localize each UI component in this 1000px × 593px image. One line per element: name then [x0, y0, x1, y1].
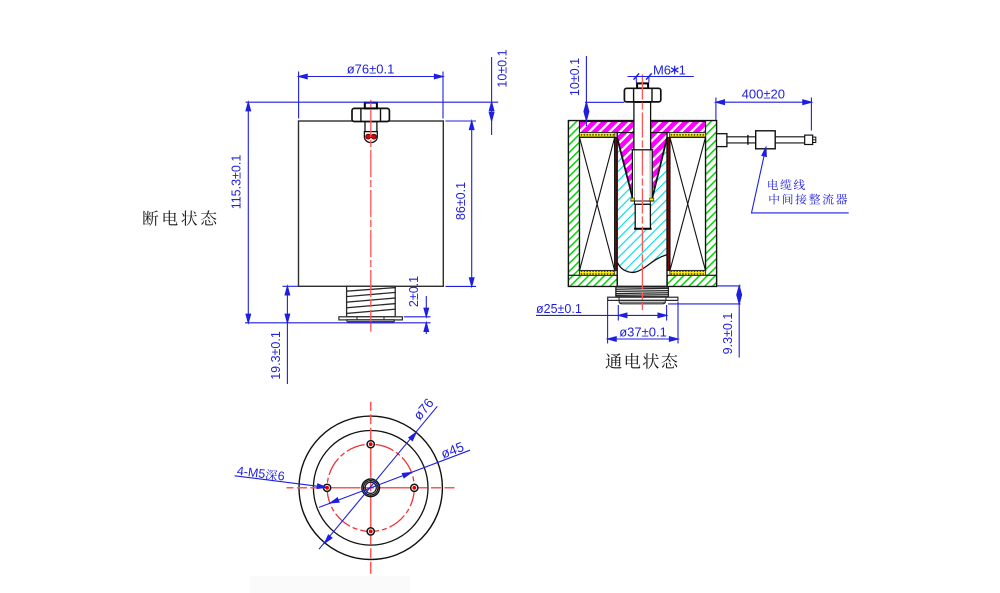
dim ø37±0.1 line [608, 338, 678, 340]
top stud tab [637, 83, 648, 88]
dim ø25±0.1 extensions [617, 305, 619, 321]
rounded bolt tip with red dots [364, 132, 377, 143]
hex nut on top [352, 108, 389, 121]
dim ø76 leader line [319, 406, 437, 549]
cable gland stub [717, 134, 727, 147]
channel wall lines [616, 133, 618, 287]
bobbin wall left (dark red) [615, 137, 617, 270]
dim 400±20 line [716, 101, 812, 103]
bolt end gap [635, 201, 651, 204]
hole E [411, 484, 418, 491]
threaded boss below shell [616, 287, 669, 297]
dim 2±0.1 extension at flange top [404, 316, 431, 318]
dim 19.3±0.1 line [286, 286, 288, 384]
svg-text:ø37±0.1: ø37±0.1 [619, 324, 667, 339]
dim 115.3±0.1 line [247, 102, 249, 323]
dim 10±0.1 (right view) line [585, 56, 587, 126]
svg-text:86±0.1: 86±0.1 [454, 182, 468, 220]
bolt hidden lines inside sleeve [634, 151, 636, 200]
hole W [324, 484, 331, 491]
label 4-M5深6 [236, 464, 285, 484]
svg-text:1: 1 [679, 63, 686, 78]
collar disk [619, 300, 665, 303]
hole N [367, 441, 374, 448]
top gasket strips (yellow dotted) [580, 133, 615, 138]
plunger (cyan hatch) with wavy break bottom [618, 141, 666, 273]
dim 9.3±0.1 extensions [717, 285, 741, 287]
cone interface lines [617, 139, 633, 200]
faint band artifact bottom-left [250, 576, 410, 593]
dim M6*1 line and oblique ticks [628, 76, 694, 78]
bobbin wall right (dark red) [667, 137, 669, 270]
bolt shank below top plate [365, 122, 377, 132]
bolt shank upper white [634, 102, 651, 150]
svg-text:2±0.1: 2±0.1 [407, 276, 421, 307]
cable wires segment 1 [727, 136, 756, 138]
cable wires segment 2 [775, 136, 805, 138]
svg-text:ø25±0.1: ø25±0.1 [536, 302, 582, 316]
label 电缆线 / 中间接整流器 (cable, rectifier in middle) [768, 179, 847, 204]
shell left wall (green hatch) [569, 121, 580, 287]
cable end connector [805, 135, 813, 144]
svg-text:ø76±0.1: ø76±0.1 [347, 62, 395, 77]
long extension line at nut top (115.3 top / 10 top) [246, 101, 499, 103]
dim ø76±0.1 line [299, 76, 443, 78]
bolt stud tab above nut [365, 103, 377, 109]
shell right wall (green hatch) [706, 121, 717, 287]
label 断电状态 (de-energized state) [143, 210, 216, 225]
shell bottom plate left (green hatch) [569, 275, 618, 286]
dim 19.3±0.1 extension [283, 285, 299, 287]
dim 10±0.1 (nut height) line [491, 57, 493, 135]
top hex nut [624, 88, 660, 102]
shell bottom plate right (green hatch) [667, 275, 716, 286]
center line horizontal [287, 487, 455, 489]
bottom threaded boss [347, 286, 396, 317]
center line vertical [370, 402, 372, 574]
stator top plate right (magenta hatch) [651, 122, 706, 133]
stator top plate left (magenta hatch) [580, 122, 634, 133]
svg-text:115.3±0.1: 115.3±0.1 [230, 155, 244, 210]
bottom collar disk [347, 320, 394, 323]
center threaded hole rings [362, 479, 380, 497]
coil winding left (X box) [580, 137, 615, 270]
long extension line at collar bottom (115.3 / 19.3 / 2 bottom) [245, 322, 431, 324]
svg-text:M6: M6 [653, 63, 671, 78]
dim 9.3±0.1 line [738, 286, 740, 358]
center line [641, 71, 643, 310]
shading pads (yellow) at cone bottom [631, 198, 634, 201]
wavy break line [618, 255, 666, 272]
bolt circle ø45 (red dashed) [327, 444, 414, 531]
stator funnel left (magenta hatch) [617, 133, 634, 199]
dim 86±0.1 line [471, 121, 473, 286]
body cylinder outline [299, 121, 444, 286]
svg-text:19.3±0.1: 19.3±0.1 [269, 331, 283, 380]
coil winding right (X box) [670, 137, 706, 270]
leader to rectifier [752, 148, 849, 213]
flange disk [339, 317, 403, 320]
dim 2±0.1 line [425, 296, 427, 317]
stator funnel right (magenta hatch) [651, 133, 667, 199]
center line [370, 99, 372, 332]
lock nut at bolt bottom [635, 204, 650, 229]
dim 400±20 extensions [715, 98, 717, 121]
svg-text:10±0.1: 10±0.1 [568, 58, 582, 96]
svg-text:400±20: 400±20 [742, 86, 785, 101]
svg-text:10±0.1: 10±0.1 [496, 49, 510, 87]
guide sleeve (white tube) [632, 149, 652, 201]
bottom gasket strips (yellow dotted) [580, 271, 615, 276]
dim ø37±0.1 extensions [607, 299, 609, 344]
dim ø76±0.1 extension lines [298, 72, 300, 119]
hole S [367, 528, 374, 535]
dim ø25±0.1 line [536, 314, 667, 316]
dim ø45 leader line [319, 450, 470, 507]
label 通电状态 (energized state) [606, 353, 678, 369]
inner circle [313, 431, 428, 546]
flange disk [608, 297, 678, 300]
svg-text:9.3±0.1: 9.3±0.1 [721, 313, 735, 355]
leader 4-M5 to hole W [235, 476, 326, 488]
rectifier box [756, 131, 776, 149]
dim 86±0.1 extensions [446, 120, 477, 122]
shell outline [569, 121, 717, 287]
outer circle ø76 [299, 416, 442, 559]
